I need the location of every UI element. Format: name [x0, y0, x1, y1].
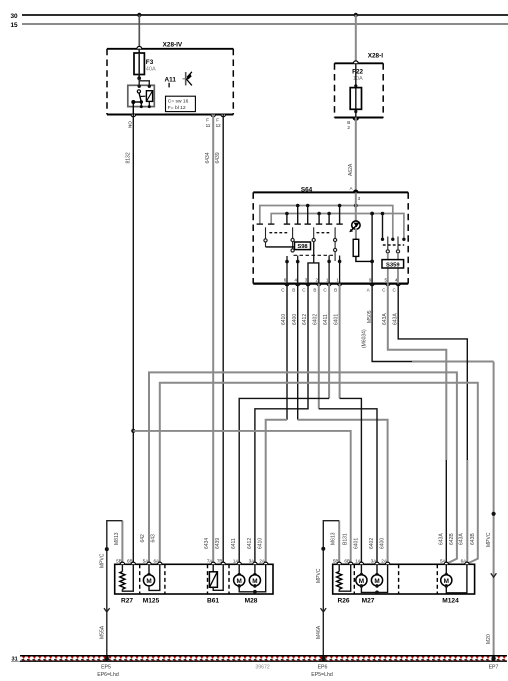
svg-text:6401: 6401: [334, 314, 340, 325]
S64 pins 3,2 fork: [308, 263, 319, 284]
svg-text:M613: M613: [331, 532, 337, 545]
svg-text:6402: 6402: [313, 314, 319, 325]
S64 switch blades and pivots: [264, 227, 337, 263]
svg-text:643B: 643B: [470, 533, 476, 545]
svg-text:M28: M28: [245, 598, 258, 605]
svg-text:6: 6: [284, 278, 287, 283]
wire fuse to relay branch: [139, 78, 149, 86]
svg-text:M: M: [146, 578, 151, 585]
svg-text:6B: 6B: [127, 558, 133, 563]
svg-text:S64: S64: [301, 186, 313, 193]
sensor B61: [207, 564, 223, 604]
S64 mechanical link dashes: [269, 233, 404, 245]
svg-text:7A: 7A: [207, 558, 214, 563]
svg-text:4: 4: [294, 278, 297, 283]
svg-text:(M6034): (M6034): [362, 329, 368, 348]
svg-text:6401: 6401: [353, 538, 359, 549]
twin motor M28: [234, 564, 266, 604]
svg-text:6A: 6A: [153, 558, 160, 563]
svg-text:B: B: [292, 288, 295, 293]
svg-text:F3: F3: [146, 59, 154, 66]
actuator arrow symbol A11: [183, 72, 192, 86]
wire 643A (S64 pin4 to M124 6A): [398, 284, 467, 460]
svg-text:643A: 643A: [459, 533, 465, 545]
svg-text:2A: 2A: [259, 558, 266, 563]
S64 internal bus 1: [260, 206, 393, 240]
svg-text:MPVC: MPVC: [316, 568, 322, 583]
S64 fixed contact T-bars: [257, 223, 343, 225]
svg-text:642: 642: [140, 534, 146, 543]
wire 8132 (X28-IV NO down to R27 6B): [132, 115, 134, 565]
svg-text:1A: 1A: [233, 558, 240, 563]
S64 contact junction dots: [285, 204, 405, 241]
sub-switch S359 box: [382, 237, 404, 284]
S64 fixed contact drops: [287, 206, 383, 240]
svg-text:B131: B131: [343, 533, 349, 545]
ground rail 31: [11, 655, 507, 663]
svg-text:643A: 643A: [439, 533, 445, 545]
svg-text:3: 3: [358, 196, 361, 201]
S64 terminal letters bottom: [281, 288, 396, 293]
node 8132/B131 junction: [131, 429, 135, 433]
wire 6400 (S64 pin4 to M27 2A): [297, 284, 299, 420]
node below fuse F3: [137, 76, 141, 80]
svg-text:6411: 6411: [231, 538, 237, 549]
junction on bus 30 feeding X28-I: [354, 13, 358, 17]
svg-text:40A: 40A: [146, 67, 156, 73]
S64 pin numbers bottom: [284, 278, 398, 283]
svg-text:B: B: [313, 288, 316, 293]
terminal bump F12: [221, 115, 226, 117]
svg-text:5B: 5B: [116, 558, 122, 563]
svg-text:B61: B61: [207, 598, 219, 605]
S64 internal bus 2: [271, 214, 404, 240]
wire colour code box C=sw16 F=bl12: [166, 96, 196, 111]
left box pin labels: [116, 558, 266, 563]
svg-text:EP6: EP6: [318, 665, 328, 671]
svg-text:M125: M125: [143, 598, 160, 605]
wire bus30 to X28-IV: [138, 15, 140, 49]
svg-text:5A: 5A: [440, 558, 447, 563]
svg-text:R27: R27: [121, 598, 133, 605]
left box terminal bumps: [120, 562, 268, 564]
wire resistor to pin 9: [356, 256, 372, 261]
svg-text:M27: M27: [362, 598, 375, 605]
svg-text:M: M: [359, 578, 364, 585]
svg-text:9: 9: [369, 278, 372, 283]
svg-text:39672: 39672: [255, 664, 270, 670]
svg-text:2: 2: [316, 278, 319, 283]
wire MPVC/M55A (left ground lead): [107, 521, 123, 658]
svg-text:A11: A11: [165, 77, 177, 84]
svg-text:643A: 643A: [392, 313, 398, 325]
svg-text:M: M: [252, 578, 257, 585]
svg-text:F: F: [216, 118, 219, 123]
right box terminal bumps: [337, 562, 469, 564]
svg-text:M505: M505: [367, 310, 373, 323]
fuse box X28-I: [335, 52, 384, 117]
svg-text:F= bl 12: F= bl 12: [168, 105, 186, 111]
bus 15 wire: [22, 23, 508, 25]
wire 6410 (S64 pin6 to M28 2A): [286, 284, 288, 420]
resistor R26: [337, 564, 351, 604]
terminal bump X28-I top: [353, 61, 358, 63]
svg-text:6402: 6402: [369, 538, 375, 549]
wire 6401 (S64 pin1 to M27 1A): [339, 284, 341, 399]
svg-text:11: 11: [206, 123, 211, 128]
S64 pin stub dots: [285, 260, 341, 264]
svg-text:6439: 6439: [215, 538, 221, 549]
svg-text:6412: 6412: [247, 538, 253, 549]
svg-text:M: M: [444, 578, 449, 585]
svg-text:1: 1: [336, 278, 339, 283]
svg-text:X28-I: X28-I: [368, 52, 383, 59]
svg-text:S359: S359: [386, 263, 400, 269]
svg-text:M20: M20: [486, 634, 492, 644]
svg-text:M46A: M46A: [316, 625, 322, 639]
svg-text:6400: 6400: [292, 314, 298, 325]
svg-text:EP5=Lhd: EP5=Lhd: [311, 672, 333, 678]
right box pin labels: [333, 558, 467, 563]
svg-text:643: 643: [151, 534, 157, 543]
S64 blade connection bar: [266, 246, 295, 248]
S64 dashed link lower: [294, 254, 334, 256]
svg-text:F22: F22: [352, 69, 363, 76]
wire M505 (S64 pin9 ground lead): [372, 284, 412, 362]
svg-text:31: 31: [12, 657, 18, 663]
wire bus30 to X28-I: [355, 15, 357, 63]
svg-text:3A: 3A: [371, 558, 378, 563]
S64 bottom terminal bumps: [285, 284, 401, 286]
svg-text:6412: 6412: [302, 314, 308, 325]
bus 30 wire: [22, 14, 508, 16]
right component box (R26/M27/M124): [333, 564, 475, 594]
svg-text:6410: 6410: [281, 314, 287, 325]
relay K (inside X28-IV): [128, 85, 155, 109]
svg-text:S98: S98: [297, 244, 308, 250]
S64 pin 9 internal wire: [371, 214, 373, 284]
ground rail junction dots: [105, 656, 109, 660]
svg-text:6411: 6411: [323, 314, 329, 325]
svg-text:X28-IV: X28-IV: [163, 42, 183, 49]
svg-text:5: 5: [385, 278, 388, 283]
junction on bus 30 feeding X28-IV: [137, 13, 141, 17]
wire 6412 (S64 pin3 to M28 3A): [255, 284, 308, 565]
svg-text:3A: 3A: [249, 558, 256, 563]
wire 6411 (S64 pin1 to M28 1A): [328, 284, 330, 399]
svg-text:MPVC: MPVC: [99, 553, 105, 568]
sub-switch S98 box: [295, 242, 311, 250]
wire 642 / 642B (M125 5A to M124 5A): [149, 372, 457, 564]
S64 pin stubs 6,4,1,1: [287, 256, 340, 284]
svg-text:7B: 7B: [217, 558, 223, 563]
svg-text:1: 1: [326, 278, 329, 283]
terminal bump X28-I bottom (B2): [353, 118, 359, 121]
svg-text:3: 3: [305, 278, 308, 283]
svg-text:R26: R26: [337, 598, 349, 605]
fuse F3: [134, 49, 156, 79]
resistor in S64: [353, 229, 359, 257]
svg-text:M124: M124: [442, 598, 459, 605]
terminal bump F11: [211, 115, 216, 117]
svg-text:10A: 10A: [353, 76, 363, 82]
svg-text:6410: 6410: [258, 538, 264, 549]
wire 6439 (X28-IV F12 down to B61 7B): [222, 115, 224, 565]
fuse/relay box X28-IV: [107, 42, 233, 115]
svg-text:5B: 5B: [333, 558, 339, 563]
terminal bump X28-IV top: [137, 46, 142, 48]
twin motor M27: [356, 564, 388, 604]
svg-text:6400: 6400: [380, 538, 386, 549]
svg-text:12: 12: [216, 123, 222, 128]
svg-text:6A: 6A: [461, 558, 468, 563]
svg-text:30: 30: [11, 13, 19, 20]
wire A62A (X28-I to S64 pin 3): [355, 118, 357, 193]
svg-text:M813: M813: [114, 532, 120, 545]
svg-text:6434: 6434: [205, 152, 211, 163]
wire MPVC/M20 (right ground lead): [493, 362, 495, 658]
wire relay output to NO terminal: [132, 102, 134, 115]
illumination lamp in S64: [349, 192, 360, 232]
svg-text:NO: NO: [128, 121, 133, 128]
svg-text:M: M: [237, 578, 242, 585]
svg-text:6439: 6439: [215, 152, 221, 163]
wire 643A (S64 pin5 to M124 5A): [388, 284, 447, 460]
svg-text:EP5: EP5: [101, 665, 111, 671]
wire M813 (R27 5B to left ground lead): [121, 521, 123, 565]
svg-text:2A: 2A: [381, 558, 388, 563]
svg-text:4: 4: [395, 278, 398, 283]
svg-text:1A: 1A: [355, 558, 362, 563]
wire 643 / 643B (M125 6A to M124 6A): [160, 383, 478, 565]
wire 6434 (X28-IV F11 down to B61 7A): [212, 115, 214, 565]
svg-text:8132: 8132: [125, 152, 131, 163]
wire MPVC/M46A (centre ground lead): [323, 521, 339, 658]
svg-text:M: M: [374, 578, 379, 585]
node on pin9 wire: [370, 260, 374, 264]
component reference A11: [165, 77, 177, 88]
svg-text:2: 2: [347, 125, 350, 130]
svg-text:5A: 5A: [143, 558, 150, 563]
svg-text:6434: 6434: [204, 538, 210, 549]
svg-text:C= sw 16: C= sw 16: [168, 98, 189, 104]
svg-text:EP7: EP7: [489, 665, 499, 671]
svg-text:15: 15: [11, 22, 19, 29]
svg-text:F: F: [206, 118, 209, 123]
svg-text:A62A: A62A: [348, 163, 354, 176]
svg-text:EP6=Lhd: EP6=Lhd: [97, 672, 119, 678]
left component box (R27/M125/B61/M28): [115, 564, 273, 594]
svg-text:643A: 643A: [382, 313, 388, 325]
terminal bump S64 pin A top: [353, 190, 358, 192]
svg-text:B: B: [334, 288, 337, 293]
svg-text:MPVC: MPVC: [486, 532, 492, 547]
svg-text:M55A: M55A: [99, 625, 105, 639]
wire B131 (junction to R26 6B): [133, 431, 350, 564]
motor M124: [441, 564, 467, 604]
wire 6402 (S64 pin2 to M27 3A): [318, 284, 320, 409]
motor M125: [143, 564, 160, 604]
wire M613 (R26 5B to centre ground lead): [338, 521, 340, 565]
switch unit S64 (box): [253, 186, 408, 283]
resistor R27: [120, 564, 134, 604]
terminal bump NO (X28-IV bottom): [131, 115, 136, 117]
fuse F22: [350, 63, 363, 117]
svg-text:642B: 642B: [449, 533, 455, 545]
svg-text:6B: 6B: [344, 558, 350, 563]
